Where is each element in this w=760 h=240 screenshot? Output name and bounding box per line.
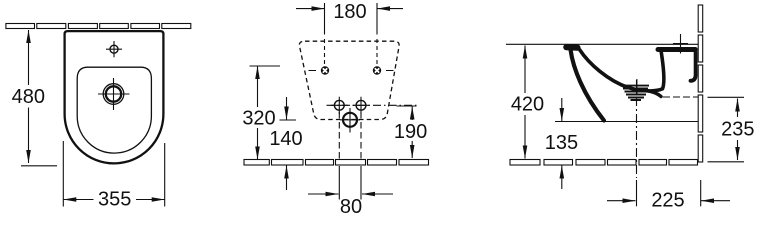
svg-text:225: 225 <box>651 190 684 212</box>
svg-text:320: 320 <box>242 108 275 130</box>
svg-text:235: 235 <box>721 119 754 141</box>
svg-text:420: 420 <box>511 94 544 116</box>
svg-text:480: 480 <box>12 86 45 108</box>
svg-text:135: 135 <box>545 132 578 154</box>
svg-text:140: 140 <box>269 128 302 150</box>
svg-text:355: 355 <box>98 188 131 210</box>
svg-text:180: 180 <box>333 1 366 23</box>
svg-text:190: 190 <box>394 121 427 143</box>
svg-text:80: 80 <box>340 196 362 218</box>
